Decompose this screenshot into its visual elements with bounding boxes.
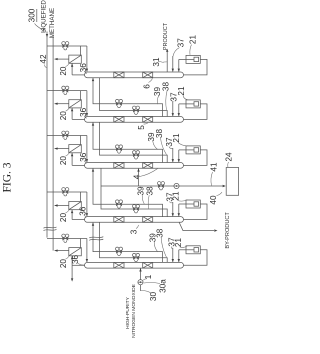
adsorption column (unit 3)	[85, 163, 184, 169]
svg-text:BY-PRODUCT: BY-PRODUCT	[225, 212, 231, 249]
control valve on liquid line (gap 2)	[133, 153, 136, 157]
adsorbent bed section 2 (unit 1)	[143, 72, 153, 78]
wire branch-3 drop to column top	[86, 136, 88, 163]
product line (unit 1)	[166, 51, 168, 72]
wire condenser outlet to column (unit 1)	[71, 63, 73, 75]
svg-text:36: 36	[78, 206, 87, 216]
svg-text:6: 6	[142, 84, 151, 89]
wire branch-1 drop to column top	[86, 46, 88, 72]
svg-text:38: 38	[155, 129, 164, 139]
break mark on headers	[44, 227, 57, 228]
svg-text:METHANE: METHANE	[49, 8, 56, 38]
cascade vapor line 39 (gap 4)	[93, 223, 163, 263]
svg-text:21: 21	[174, 238, 183, 248]
feed line high-purity nitrogen monoxide	[140, 285, 142, 291]
control valve on liquid line (gap 1)	[133, 108, 136, 112]
wire return to header B (unit 1)	[55, 58, 69, 60]
wire branch-1 drop to condenser	[79, 46, 81, 55]
adsorbent bed section 1 (unit 2)	[114, 117, 124, 123]
condenser box 20 (unit 1)	[69, 55, 82, 63]
svg-text:36: 36	[71, 255, 80, 265]
wire component 21 loop (unit 4)	[184, 204, 208, 220]
svg-text:40: 40	[209, 195, 218, 205]
svg-text:36: 36	[79, 63, 88, 73]
regulator component 21 (unit 3)	[186, 146, 200, 154]
valve on by-product line	[158, 184, 161, 188]
adsorption column (unit 4)	[85, 217, 184, 223]
recovery unit box 24	[226, 168, 238, 196]
stream 37 arrow into column top (unit 3)	[172, 148, 174, 162]
adsorbent bed section 2 (unit 3)	[143, 163, 153, 169]
condenser box 20 (unit 3)	[69, 145, 82, 153]
wire branch-4 drop to column top	[86, 192, 88, 216]
header line B (methane return)	[52, 35, 54, 251]
control valve on vapor line (gap 2)	[116, 147, 119, 151]
svg-text:21: 21	[172, 133, 181, 143]
svg-text:20: 20	[59, 213, 68, 223]
svg-text:42: 42	[39, 54, 48, 64]
wire component 21 inlet (unit 5)	[179, 249, 186, 251]
svg-text:38: 38	[156, 228, 165, 238]
svg-text:300: 300	[28, 8, 37, 22]
cascade liquid line 38 (gap 1)	[100, 78, 168, 117]
regulator component 21 (unit 1)	[186, 55, 200, 63]
control valve on branch-3	[62, 133, 65, 137]
condenser box 20 (unit 2)	[69, 100, 82, 108]
header line 42 (liquefied methane supply)	[46, 32, 48, 238]
wire component 21 loop (unit 2)	[184, 104, 208, 120]
control valve on vapor line (gap 4)	[116, 250, 119, 254]
condenser box 20 (unit 5)	[69, 248, 82, 256]
wire condenser outlet to column (unit 4)	[71, 210, 73, 220]
svg-text:24: 24	[224, 152, 233, 162]
svg-text:21: 21	[177, 86, 186, 96]
wire component 21 inlet (unit 4)	[179, 203, 186, 205]
wire branch-3 from header 42	[47, 135, 87, 137]
adsorption column (unit 2)	[85, 117, 184, 123]
svg-text:20: 20	[59, 156, 68, 166]
stream 37 arrow into column top (unit 1)	[172, 56, 174, 72]
control valve on vapor line (gap 1)	[116, 102, 119, 106]
control valve on vapor line (gap 3)	[116, 202, 119, 206]
wire component 21 loop (unit 5)	[184, 250, 208, 265]
cascade vapor line 39 (gap 2)	[93, 123, 163, 163]
wire branch-3 drop to condenser	[79, 136, 81, 145]
wire branch-2 drop to column top	[86, 91, 88, 117]
svg-text:39: 39	[137, 186, 146, 196]
svg-text:4: 4	[133, 174, 142, 179]
regulator component 21 (unit 2)	[186, 100, 200, 108]
wire waste outlet (unit 5)	[71, 265, 73, 278]
svg-text:30a: 30a	[159, 279, 168, 293]
svg-text:PRODUCT: PRODUCT	[163, 22, 169, 50]
svg-text:1: 1	[144, 274, 153, 279]
wire branch-2 drop to condenser	[79, 91, 81, 100]
wire branch-5 drop to column top	[86, 239, 88, 263]
wire component 21 inlet (unit 1)	[179, 58, 186, 60]
flow arrow on header 42	[46, 34, 48, 37]
stream 37 arrow into column top (unit 5)	[172, 248, 174, 262]
feed valve 30a	[138, 280, 143, 285]
wire return to header B (unit 5)	[55, 250, 69, 252]
adsorbent bed section 2 (unit 2)	[143, 117, 153, 123]
wire branch-2 from header 42	[47, 90, 87, 92]
regulator component 21 (unit 5)	[186, 246, 200, 254]
svg-text:NITROGEN MONOXIDE: NITROGEN MONOXIDE	[131, 283, 137, 338]
wire condenser outlet to column (unit 2)	[71, 108, 73, 120]
adsorbent bed section 2 (unit 4)	[143, 217, 153, 223]
svg-text:3: 3	[130, 229, 139, 234]
by-product line 40 to recovery unit	[101, 185, 222, 187]
svg-text:41: 41	[210, 162, 219, 172]
recycle branch into column 3	[138, 169, 140, 186]
wire branch-1 from header 42	[47, 45, 87, 47]
adsorbent bed section 1 (unit 1)	[114, 72, 124, 78]
cascade vapor line 39 (gap 3)	[93, 169, 163, 217]
svg-text:38: 38	[162, 82, 171, 92]
svg-text:37: 37	[177, 38, 186, 48]
control valve on branch-1	[62, 44, 65, 48]
wire return to header B (unit 3)	[55, 148, 69, 150]
svg-text:21: 21	[172, 191, 181, 201]
stream 37 arrow into column top (unit 4)	[172, 202, 174, 216]
instrument on by-product line	[174, 183, 179, 188]
adsorbent bed section 1 (unit 4)	[114, 217, 124, 223]
wire branch-5 drop to condenser	[79, 239, 81, 248]
adsorption column (unit 1)	[85, 72, 184, 78]
control valve on branch-4	[62, 190, 65, 194]
control valve on branch-2	[62, 89, 65, 93]
svg-text:36: 36	[79, 152, 88, 162]
adsorbent bed section 1 (unit 3)	[114, 163, 124, 169]
control valve on liquid line (gap 4)	[133, 256, 136, 260]
cascade liquid line 38 (gap 2)	[100, 122, 168, 162]
wire component 21 inlet (unit 3)	[179, 149, 186, 151]
svg-text:36: 36	[79, 107, 88, 117]
wire condenser outlet to column (unit 5)	[71, 256, 73, 265]
adsorbent bed section 2 (unit 5)	[143, 262, 153, 268]
wire return to header B (unit 4)	[55, 205, 69, 207]
break mark on cascade risers (gap 4)	[89, 237, 103, 238]
control valve on branch-5	[62, 236, 65, 240]
regulator component 21 (unit 4)	[186, 200, 200, 208]
svg-text:LIQUEFIED: LIQUEFIED	[40, 0, 47, 33]
svg-text:5: 5	[137, 125, 146, 130]
wire branch-4 from header 42	[47, 191, 87, 193]
cascade vapor line 39 (gap 1)	[93, 78, 163, 116]
wire component 21 inlet (unit 2)	[179, 103, 186, 105]
svg-text:20: 20	[59, 259, 68, 269]
control valve on liquid line (gap 3)	[133, 207, 136, 211]
wire condenser outlet to column (unit 3)	[71, 153, 73, 166]
svg-text:FIG. 3: FIG. 3	[2, 162, 14, 192]
svg-text:20: 20	[59, 66, 68, 76]
wire return to header B (unit 2)	[55, 103, 69, 105]
cascade liquid line 38 (gap 3)	[101, 168, 167, 216]
adsorbent bed section 1 (unit 5)	[114, 262, 124, 268]
leader arrow from 300 to header	[35, 24, 42, 30]
wire branch-4 drop to condenser	[79, 192, 81, 202]
adsorption column (unit 5)	[85, 262, 184, 268]
wire branch-5 from header 42	[47, 238, 87, 240]
wire component 21 loop (unit 3)	[184, 150, 208, 166]
svg-text:38: 38	[146, 186, 155, 196]
wire component 21 loop (unit 1)	[184, 59, 208, 75]
stream 37 arrow into column top (unit 2)	[172, 102, 174, 116]
cascade liquid line 38 (gap 4)	[100, 222, 168, 262]
svg-text:20: 20	[59, 111, 68, 121]
svg-text:21: 21	[189, 35, 198, 45]
svg-text:HIGH-PURITY: HIGH-PURITY	[125, 296, 131, 329]
by-product outlet line	[179, 222, 214, 231]
condenser box 20 (unit 4)	[69, 202, 82, 210]
